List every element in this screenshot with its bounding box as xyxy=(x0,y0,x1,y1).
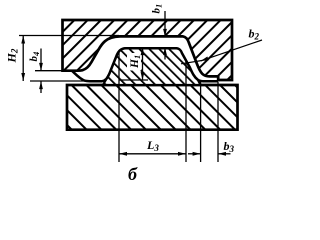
b1 upper arrow xyxy=(164,11,166,36)
H1 bottom tick line xyxy=(119,79,148,81)
sheet right end step xyxy=(217,76,220,81)
svg-text:б: б xyxy=(128,164,138,184)
H1 dimension line xyxy=(142,47,144,80)
b4 lower arrow xyxy=(40,81,42,93)
H2 top extension line xyxy=(19,35,119,37)
H1 label white pocket xyxy=(127,53,141,71)
b4 upper arrow xyxy=(40,49,42,71)
H2/b4 bottom extension line xyxy=(30,80,85,82)
b2 leader line xyxy=(201,40,262,61)
die boss (raised form block) xyxy=(103,48,201,85)
upper die block (punch) with hat cavity xyxy=(63,20,233,80)
b3 right extension line xyxy=(217,82,219,162)
b3 outside arrows xyxy=(188,153,201,155)
b1 lower arrow xyxy=(164,47,166,59)
L3 left extension line xyxy=(118,53,120,163)
b3 left extension line xyxy=(200,82,202,162)
H2 dimension line xyxy=(22,36,24,82)
b4 top extension line xyxy=(35,70,62,72)
lower die block xyxy=(67,85,238,130)
L3 right extension line xyxy=(185,60,187,163)
L3 dimension line xyxy=(119,153,186,155)
sheet bottom (inner) surface xyxy=(72,48,218,81)
